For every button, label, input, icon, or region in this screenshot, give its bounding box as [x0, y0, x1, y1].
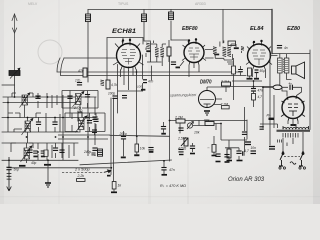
antenna coil L1 [9, 71, 20, 76]
heater stack a bar [216, 161, 221, 163]
svg-text:4,7k: 4,7k [111, 83, 117, 87]
ground AF1 [212, 155, 217, 157]
osc trimmer 2 [93, 119, 98, 121]
resistor 4,7k below ECH81 [106, 80, 110, 89]
cap 100p [112, 96, 117, 98]
cathode resistor EL84 [248, 68, 252, 76]
ground AF2 [227, 160, 233, 162]
fuse F1 [273, 85, 282, 90]
T2 core bar right [234, 47, 239, 49]
EBF80 grid stubs [171, 39, 196, 44]
svg-text:17p: 17p [75, 79, 81, 83]
row C cap 1 [33, 151, 38, 153]
row A coil arrow [20, 93, 31, 108]
resistor right column [78, 112, 82, 121]
shielded wire to volume pot [136, 72, 138, 136]
cap blob AVC bar [149, 151, 154, 153]
switch gang dashed link [284, 156, 300, 158]
cap row b4b [91, 153, 95, 155]
svg-text:MELV: MELV [28, 2, 38, 6]
screen cap at x88 [86, 14, 91, 22]
row C brackets [11, 143, 74, 160]
row C chassis bar 1 [19, 165, 26, 167]
tube V2 EBF80 envelope [182, 39, 206, 65]
cap row b8 bar [179, 154, 184, 156]
resistor at EBF80 grid [168, 40, 170, 62]
oscillator module 2 loop [65, 113, 105, 132]
cap 100n [236, 151, 241, 153]
cap 100n near rectifier [251, 151, 257, 154]
T1 secondary coil a [155, 48, 159, 58]
T2 trimmer hatch right [241, 47, 244, 51]
row A trimmer cap [35, 96, 40, 98]
loudspeaker LS [292, 62, 305, 79]
cap row b3 [59, 150, 64, 152]
antenna coupling wire left [2, 84, 15, 86]
cap pair below ECH81 [122, 96, 127, 98]
heater stack a [215, 154, 220, 156]
IF transformer T1 primary trimmer [146, 43, 150, 49]
tube V5 DM70 envelope [199, 87, 216, 108]
cap on anode drop [143, 80, 147, 83]
resistor 2,2k horizontal [77, 179, 86, 182]
svg-text:150: 150 [77, 109, 83, 113]
cathode ground bar [247, 78, 253, 80]
svg-text:∼: ∼ [207, 146, 210, 150]
svg-text:1k: 1k [118, 184, 122, 188]
heater stack b bar [225, 161, 230, 163]
T2 core bar [214, 54, 219, 56]
anode drop x142.5 [142, 55, 144, 91]
cap stack bar [161, 133, 166, 135]
oscillator module 1 loop [62, 91, 98, 109]
coupling box above T2 [228, 41, 236, 46]
row C cap 3 [53, 148, 58, 150]
output stage right wire [272, 50, 310, 130]
cathode rail wire y77 [61, 58, 247, 76]
wires AVC [227, 58, 241, 100]
svg-text:R≈: R≈ [267, 114, 271, 118]
svg-text:4,7: 4,7 [258, 95, 263, 99]
svg-text:Orion AR 303: Orion AR 303 [228, 177, 265, 183]
cap 100n partner bar [243, 151, 245, 156]
cap on HT wire [242, 132, 247, 134]
ground under 1k [111, 191, 117, 193]
row C cap 1 bar [33, 156, 37, 158]
mains transformer T4 core [277, 130, 311, 131]
dark bar below arrow [107, 175, 111, 177]
gang dashed line [62, 171, 104, 173]
tuner wire y102 [3, 102, 80, 104]
row B cap 1 [36, 122, 41, 124]
antenna lower arrowhead [12, 28, 16, 33]
heater stack b [224, 155, 229, 157]
resistor 68k [205, 122, 214, 126]
wire rail to 10k [136, 136, 138, 154]
output transformer T3 [278, 58, 289, 73]
cap at bottom of AVC [148, 148, 153, 150]
tube V2 pin wires [180, 61, 199, 77]
resistor 10k below rail [135, 144, 139, 152]
twin drop wires to output [111, 98, 114, 182]
row B coil L3 hatched [25, 121, 31, 132]
rail A y136 [110, 135, 170, 136]
tuner top wire y97 [3, 96, 96, 98]
svg-text:240p: 240p [83, 150, 91, 154]
osc coil 1 X-hatch [76, 94, 82, 105]
resistor 470 [83, 68, 87, 77]
cap AVC [238, 70, 243, 72]
wire drop at x144 [144, 10, 151, 42]
cap row b1 [27, 150, 32, 152]
transformer top lead hooks [283, 124, 309, 129]
row C coil L5 hatched [24, 148, 30, 159]
transformer lead wires [260, 124, 303, 152]
cap stack mid-left [161, 127, 166, 129]
row C chassis bar 2 [44, 164, 51, 166]
cap bars on x263 [260, 127, 264, 129]
electrolytic C main [269, 147, 275, 150]
wire drop at x223 [222, 10, 224, 44]
electrolytic C2 [245, 142, 251, 145]
T2 secondary coil b [227, 47, 231, 57]
switch S1a foot loops [279, 167, 286, 169]
svg-text:EBF80: EBF80 [182, 26, 198, 32]
T2 secondary coil a [223, 47, 227, 57]
wire cap47n [163, 161, 165, 175]
resistor AVC [232, 66, 236, 74]
row C cap 2 bar [41, 156, 45, 158]
mains transformer secondary winding [283, 133, 298, 138]
svg-text:ECH81: ECH81 [112, 29, 137, 35]
HT wire x247 [246, 120, 248, 139]
svg-text:DM70: DM70 [200, 80, 212, 86]
tuner wire y143 [2, 142, 78, 144]
ECH81 top cap wire [107, 38, 143, 81]
row B coil arrow [22, 118, 34, 135]
svg-text:68k: 68k [204, 119, 210, 123]
sloped rail y165-160 [80, 160, 172, 165]
wire cap stack [163, 122, 165, 133]
screen rail wire y72 [57, 58, 242, 72]
svg-text:47n: 47n [258, 89, 264, 93]
coil row b4 [98, 149, 103, 156]
svg-text:10n: 10n [251, 146, 257, 150]
ghost bleed-through circle [38, 40, 62, 64]
svg-text:4n: 4n [284, 46, 288, 50]
AVC wire x169 [169, 56, 171, 161]
svg-text:200p: 200p [119, 132, 127, 136]
ground under 100n [237, 160, 243, 162]
wire drop at x272 to output stage [271, 10, 273, 54]
cap 200p [178, 128, 183, 130]
antenna coil lead down [14, 76, 16, 97]
cap stack left [190, 146, 195, 148]
svg-text:4n: 4n [289, 82, 293, 86]
svg-text:470: 470 [78, 69, 84, 73]
junction dots main [8, 71, 304, 169]
tuner wire y117 [2, 117, 96, 119]
AC mains squiggle [290, 162, 296, 165]
svg-text:EL84: EL84 [250, 26, 264, 32]
screen cap at x171 [169, 12, 174, 20]
wire cathode to AVC [118, 90, 143, 92]
row B cap 2 [52, 122, 57, 124]
wire under 1k [113, 189, 115, 192]
bar under 200p drop [121, 157, 126, 159]
osc cap 2 [87, 121, 92, 123]
resistor Rk EZ80 dark bar [269, 118, 275, 120]
wire tuner to ECH81 grid [64, 57, 117, 59]
ground bottom mid [162, 174, 168, 176]
T1 secondary coil b [160, 48, 164, 58]
tube V3 EL84 envelope [246, 40, 272, 70]
svg-text:50μ: 50μ [260, 69, 266, 73]
svg-text:10k: 10k [140, 147, 146, 151]
res row b2 [44, 150, 48, 156]
osc bottom wires [58, 131, 124, 139]
capacitor 4n7 [290, 85, 292, 90]
EZ80 feed wire [263, 85, 270, 145]
svg-text:100p: 100p [108, 92, 115, 96]
svg-text:100: 100 [137, 85, 142, 89]
DM70 ground [204, 111, 210, 115]
cap 4n above transformer [277, 46, 282, 48]
T2 wires [205, 41, 242, 65]
cap 47n det [251, 89, 256, 92]
volume pot P1 [187, 122, 194, 130]
resistor AF2 [227, 149, 231, 158]
T1 core bar [146, 50, 151, 52]
wire 200p to chassis [123, 139, 125, 156]
wires det [230, 81, 273, 107]
svg-text:40p: 40p [31, 161, 37, 165]
wire x180 pot feed [179, 120, 181, 133]
AF wires [193, 120, 248, 160]
AF rail wire y120 [170, 120, 248, 122]
resistor 2,2M [176, 119, 185, 123]
row A coil L2 hatched [22, 95, 28, 105]
left HT wire x244 [244, 107, 246, 152]
row C cap 2 [41, 151, 46, 153]
cap 50p antenna [6, 167, 11, 169]
cap right column 1 [92, 117, 97, 119]
IF transformer T2 primary coil [213, 47, 217, 54]
svg-text:2 x 500μ: 2 x 500μ [74, 167, 90, 171]
ground under cap stack [190, 153, 195, 155]
resistor 1k bottom [112, 182, 116, 190]
tube V4 EZ80 envelope [281, 96, 305, 122]
speaker wires [280, 54, 292, 86]
osc coil 2 X-hatch [79, 118, 85, 130]
mains switch S1a [279, 153, 284, 167]
antenna arrowhead [12, 14, 17, 21]
heater winding hatch [278, 140, 282, 143]
svg-text:10k: 10k [194, 131, 200, 135]
wire drop at x88 [87, 10, 89, 83]
cap right column 2 [92, 148, 97, 150]
top B+ bus wire [88, 9, 272, 11]
cap row b8 [178, 150, 183, 152]
grid leak hatch below ECH81 [101, 80, 105, 86]
svg-text:47n: 47n [148, 80, 154, 84]
resistor 7,2M second [222, 106, 230, 109]
cap 200p bottom osc [121, 137, 126, 139]
osc cap 1 [85, 95, 90, 97]
wire y81 [232, 73, 262, 82]
DM70 side wires [207, 86, 230, 105]
wire drop at x171 [170, 10, 172, 41]
svg-text:2,2k: 2,2k [77, 174, 85, 178]
earth arrow [7, 157, 12, 191]
tube V1 pin wires [121, 68, 137, 91]
chassis bus wire y156 [2, 159, 78, 161]
svg-text:R↓ = 470 K MΩ: R↓ = 470 K MΩ [160, 184, 186, 188]
wire down to ground mid [47, 160, 49, 183]
wire from fuse to EZ80 [263, 54, 302, 97]
T1 wire loop [146, 41, 166, 67]
cathode cap EL84 [255, 70, 259, 73]
resistor 7,2M [222, 82, 231, 86]
AVC wire x152 [151, 66, 153, 80]
bar below 10k [134, 154, 139, 156]
antenna coil tuning arrow [10, 68, 20, 79]
mains transformer primary winding [283, 127, 309, 129]
mains switch S1b [299, 153, 304, 167]
cap ground bar [254, 78, 259, 80]
cap pair at EBF80 cathode [171, 62, 176, 64]
svg-text:2,2M: 2,2M [174, 116, 183, 120]
svg-text:47n: 47n [169, 168, 175, 172]
screen cap at x144 [142, 14, 147, 22]
gang arrow [104, 170, 111, 173]
chassis rail y167.8 [8, 167, 111, 169]
tube V3 pin wires [253, 56, 278, 79]
pot 2,5M [181, 138, 188, 146]
svg-text:50p: 50p [14, 168, 20, 172]
resistor AF1 [212, 145, 216, 153]
osc coil 1 arrow [73, 91, 85, 107]
cap 47n bottom [161, 168, 166, 170]
tuner wire y132 [2, 131, 80, 133]
cathode bar below EZ80 [291, 124, 296, 126]
second HT drop wire [273, 95, 275, 128]
antenna mast wire [14, 14, 16, 71]
cap 17p osc [77, 83, 82, 85]
row C coil arrow [21, 146, 33, 162]
svg-text:2,5M: 2,5M [177, 137, 186, 141]
dark bar below EBF80 [176, 67, 181, 69]
dark marks under osc [92, 130, 97, 132]
tuner verticals [8, 93, 95, 163]
bar on anode drop [141, 89, 145, 91]
tube V4 pin wires [288, 119, 298, 127]
row A bracket posts [12, 93, 57, 108]
svg-text:AR303: AR303 [195, 2, 206, 6]
wire ECH81 pin to osc [117, 65, 119, 114]
junction dots tuner [7, 96, 89, 153]
switch S1b foot loops [299, 167, 306, 169]
detector resistor R d1 [247, 65, 249, 67]
row B brackets [8, 113, 60, 132]
osc coil 2 arrow [76, 116, 88, 133]
tube V1 ECH81 envelope [113, 39, 144, 71]
svg-text:EZ80: EZ80 [287, 26, 301, 32]
osc trimmer 1 [67, 96, 72, 98]
resistor 4,7k det [252, 94, 256, 101]
ground mid-bottom [45, 183, 51, 187]
svg-text:TIPUS: TIPUS [118, 2, 129, 6]
svg-text:spannungskizni: spannungskizni [170, 93, 196, 97]
